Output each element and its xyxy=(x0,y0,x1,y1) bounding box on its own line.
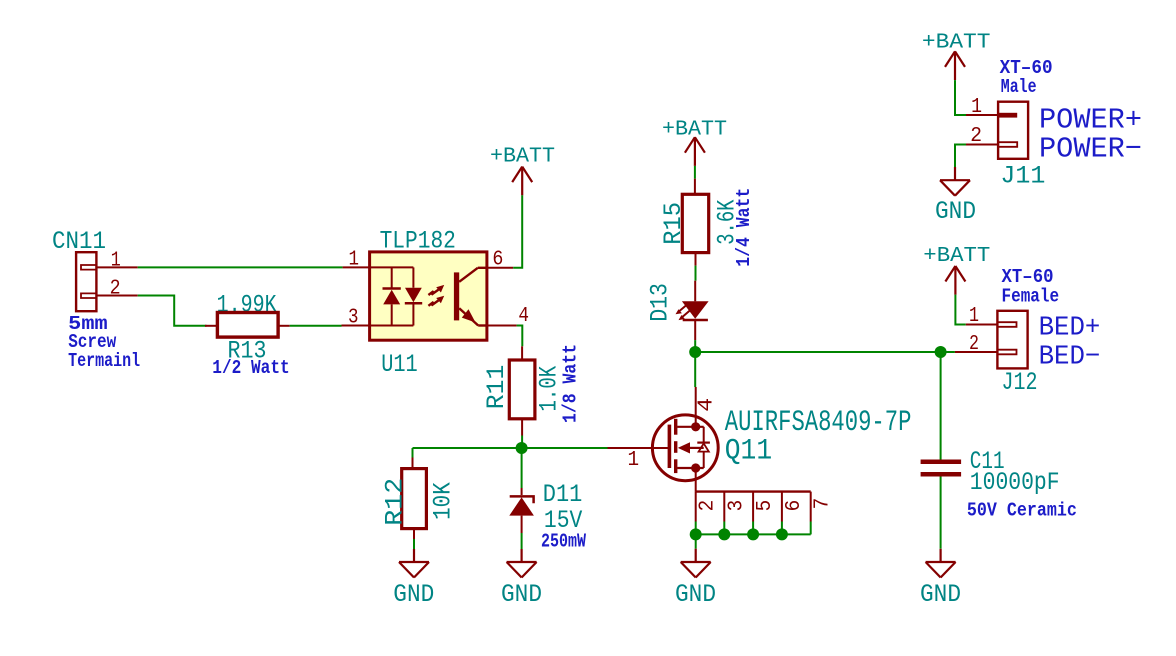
U11 pin 1 xyxy=(343,266,370,268)
connector J12 pin 2 contact xyxy=(997,350,1016,355)
field text 1/4 Watt xyxy=(733,188,755,267)
pin number 4 (U11) xyxy=(518,305,529,328)
zener D11 pin cathode xyxy=(521,488,523,495)
wire source stub 3 xyxy=(723,522,725,535)
U11 LED input rail top xyxy=(370,266,414,268)
svg-text:Termainl: Termainl xyxy=(68,350,140,372)
svg-text:10000pF: 10000pF xyxy=(970,468,1060,497)
wire gate to Q11 xyxy=(608,447,669,449)
resistor R13 value 1.99K xyxy=(217,291,277,320)
net label POWER+ xyxy=(1039,103,1142,136)
capacitor C11 reference xyxy=(970,447,1005,476)
wire CN11-1 to U11-1 xyxy=(138,266,343,268)
field text XT-60 (J12) xyxy=(1002,266,1054,288)
LED D13 emission arrow lower xyxy=(679,310,691,320)
U11 pin 3 xyxy=(342,325,370,327)
wire D13 node to C11 node xyxy=(695,351,940,353)
pin number 6 (U11) xyxy=(492,248,503,271)
svg-text:BED+: BED+ xyxy=(1039,314,1101,344)
power label +BATT (J12) xyxy=(923,244,990,268)
wire node to C11 xyxy=(940,352,942,460)
connector CN11 pin 2 contact xyxy=(81,293,96,298)
pin number 2 (J12) xyxy=(969,333,979,356)
svg-text:250mW: 250mW xyxy=(541,531,586,553)
wire source stub 2 xyxy=(695,522,697,535)
connector J11 pin 2 contact xyxy=(998,142,1017,147)
wire R12 to GND xyxy=(413,539,415,549)
wire U11-4 to R11 xyxy=(517,326,523,347)
svg-text:+BATT: +BATT xyxy=(922,31,991,55)
svg-text:U11: U11 xyxy=(381,350,418,379)
zener D11 value 15V xyxy=(544,506,582,535)
pin number 2 (J11) xyxy=(970,125,982,148)
ground GND (Q11) xyxy=(681,549,711,578)
pin number 1 (Q11 gate) xyxy=(628,449,640,472)
field text Termainl xyxy=(68,350,140,372)
wire source stub 7 xyxy=(810,522,812,535)
pin number 1 (CN11) xyxy=(111,249,121,272)
wire U11-6 to +BATT xyxy=(513,195,522,267)
resistor R12 pin 1 xyxy=(412,458,414,469)
connector J11 pin 1 xyxy=(966,114,998,116)
resistor R12 pin 2 xyxy=(413,529,415,539)
capacitor C11 value 10000pF xyxy=(970,468,1060,497)
resistor R11 value 1.0K xyxy=(535,366,564,412)
U11 phototransistor emitter xyxy=(459,308,487,325)
resistor R11 pin 1 xyxy=(521,346,523,360)
connector J12 pin 1 xyxy=(966,324,998,326)
ground label GND (D11) xyxy=(501,580,542,609)
svg-text:D13: D13 xyxy=(646,283,675,322)
pin number 5 (Q11) xyxy=(754,500,777,512)
svg-text:3: 3 xyxy=(348,307,359,330)
field text Screw xyxy=(68,331,117,353)
wire D11 to GND xyxy=(521,533,523,549)
junction gate node xyxy=(516,442,528,454)
ground label GND (Q11) xyxy=(675,580,716,609)
power label +BATT (U11) xyxy=(490,145,555,169)
svg-text:10K: 10K xyxy=(429,482,458,520)
svg-text:BED−: BED− xyxy=(1039,342,1101,372)
wire drain vertical xyxy=(694,352,696,387)
svg-text:Male: Male xyxy=(1001,76,1037,98)
connector CN11 body xyxy=(76,252,96,311)
transistor Q11 value AUIRFSA8409-7P xyxy=(725,406,912,440)
zener D11 reference xyxy=(543,480,583,509)
wire source to GND xyxy=(695,534,697,548)
svg-text:1: 1 xyxy=(971,96,982,119)
svg-text:4: 4 xyxy=(695,398,718,412)
resistor R12 body xyxy=(402,469,427,529)
connector J11 pin 1 contact xyxy=(998,113,1017,118)
wire D13 to node xyxy=(694,340,696,352)
U11 phototransistor base bar xyxy=(454,272,459,320)
pin number 1 (U11) xyxy=(349,248,360,271)
svg-text:R12: R12 xyxy=(381,478,410,526)
Q11 pin 2 stub xyxy=(695,492,697,522)
wire C11 to GND xyxy=(940,477,942,549)
Q11 source bus bar xyxy=(696,490,811,492)
svg-text:1: 1 xyxy=(111,249,121,272)
wire CN11-2 to R13 xyxy=(138,296,207,326)
capacitor C11 plates xyxy=(921,460,962,477)
svg-text:1: 1 xyxy=(969,305,979,328)
zener D11 triangle xyxy=(509,497,534,515)
connector CN11 pin 1 xyxy=(96,266,137,268)
wire source stub 6 xyxy=(781,522,783,535)
pin number 1 (J11) xyxy=(971,96,982,119)
U11 pin 6 xyxy=(487,267,513,269)
Q11 drain pin xyxy=(695,387,697,427)
power label +BATT (R15) xyxy=(662,118,727,142)
net label BED- xyxy=(1039,342,1101,372)
wire R15 to D13 xyxy=(695,266,697,281)
U11 right LED cathode bar xyxy=(405,302,422,305)
pin number 2 (Q11) xyxy=(697,500,720,512)
ground GND (D11) xyxy=(507,549,537,578)
pin number 6 (Q11) xyxy=(783,500,806,512)
U11 emission arrow lower xyxy=(428,296,444,306)
svg-text:1: 1 xyxy=(628,449,640,472)
field text XT-60 (J11) xyxy=(1000,57,1053,79)
wire +BATT to J11-1 xyxy=(955,80,966,115)
svg-text:1/8 Watt: 1/8 Watt xyxy=(559,344,581,423)
junction source 3 xyxy=(718,528,730,540)
Q11 source pin xyxy=(695,468,697,492)
net label BED+ xyxy=(1039,314,1101,344)
ground label GND (R12) xyxy=(393,580,434,609)
LED D13 pin anode xyxy=(694,281,696,302)
resistor R15 value 3.6K xyxy=(712,200,741,245)
svg-text:6: 6 xyxy=(492,248,503,271)
resistor R13 pin 1 xyxy=(205,325,217,327)
svg-text:50V Ceramic: 50V Ceramic xyxy=(967,499,1077,521)
Q11 source mid line xyxy=(690,447,704,449)
wire source stub 5 xyxy=(752,522,754,535)
pin number 3 (Q11) xyxy=(725,500,748,512)
svg-text:2: 2 xyxy=(969,333,979,356)
U11 left LED cathode bar xyxy=(383,287,401,290)
power symbol +BATT (U11) xyxy=(512,167,532,196)
connector J12 body xyxy=(997,311,1027,369)
power symbol +BATT (J11) xyxy=(945,51,965,80)
wire gate node to R12 xyxy=(412,448,414,458)
power symbol +BATT (R15) xyxy=(685,137,705,166)
svg-text:Female: Female xyxy=(1002,286,1060,308)
svg-text:POWER−: POWER− xyxy=(1039,133,1142,166)
field text Female xyxy=(1002,286,1060,308)
svg-text:Q11: Q11 xyxy=(725,435,772,469)
connector J11 body xyxy=(998,102,1028,159)
svg-text:+BATT: +BATT xyxy=(490,145,555,169)
junction source 5 xyxy=(747,528,759,540)
LED D13 triangle xyxy=(682,301,709,319)
U11 pin 4 xyxy=(487,325,517,327)
Q11 pin 3 stub xyxy=(723,492,725,522)
LED D13 cathode bar xyxy=(683,319,708,322)
wire R11 to gate node xyxy=(521,436,523,449)
zener D11 cathode bar xyxy=(510,496,534,503)
pin number 4 (Q11 drain) xyxy=(695,398,718,412)
pin number 3 (U11) xyxy=(348,307,359,330)
Q11 drain junction dot xyxy=(691,422,700,431)
U11 right LED triangle xyxy=(405,288,422,303)
ground label GND (C11) xyxy=(920,580,961,609)
wire J11-2 to GND xyxy=(955,145,966,168)
ground GND (R12) xyxy=(399,549,429,578)
U11 LED input rail bottom xyxy=(370,325,414,327)
resistor R11 reference xyxy=(482,365,511,410)
resistor R11 body xyxy=(509,360,535,419)
ground label GND (J11) xyxy=(935,197,976,226)
wire +BATT to J12-1 xyxy=(955,295,965,325)
transistor Q11 body circle xyxy=(652,415,718,481)
junction source 2 xyxy=(690,528,702,540)
U11 left LED vertical xyxy=(391,267,393,325)
U11 left LED triangle xyxy=(383,290,400,305)
resistor R12 value 10K xyxy=(429,482,458,520)
resistor R15 pin 1 xyxy=(694,179,696,195)
net label POWER- xyxy=(1039,133,1142,166)
Q11 channel segments xyxy=(674,419,677,473)
svg-text:XT–60: XT–60 xyxy=(1002,266,1054,288)
Q11 pin 6 stub xyxy=(781,492,783,522)
pin number 7 (Q11) xyxy=(812,498,835,510)
svg-text:+BATT: +BATT xyxy=(923,244,990,268)
Q11 source arrow xyxy=(678,442,690,453)
wire +BATT to R15 xyxy=(694,166,696,179)
wire gate node to D11 xyxy=(521,448,523,488)
Q11 body diode xyxy=(697,427,710,468)
connector J12 reference xyxy=(1002,368,1038,397)
field text 1/8 Watt xyxy=(559,344,581,423)
connector J11 pin 2 xyxy=(966,144,998,146)
svg-text:GND: GND xyxy=(935,197,976,226)
transistor Q11 reference xyxy=(725,435,772,469)
U11 right LED vertical xyxy=(412,267,414,325)
resistor R13 reference xyxy=(228,337,267,366)
connector J12 pin 2 xyxy=(955,351,998,353)
svg-text:6: 6 xyxy=(783,500,806,512)
svg-text:POWER+: POWER+ xyxy=(1039,103,1142,136)
connector J11 reference xyxy=(1000,162,1045,191)
Q11 bottom connection xyxy=(677,467,704,469)
svg-text:GND: GND xyxy=(675,580,716,609)
svg-text:3: 3 xyxy=(725,500,748,512)
op-to-coupler U11 value TLP182 xyxy=(380,226,456,255)
Q11 source junction dot xyxy=(691,463,700,472)
wire C11 node to J12-2 xyxy=(941,351,955,353)
junction source 6 xyxy=(776,528,788,540)
svg-text:GND: GND xyxy=(393,580,434,609)
svg-text:5: 5 xyxy=(754,500,777,512)
svg-text:1/2 Watt: 1/2 Watt xyxy=(212,357,289,379)
svg-text:2: 2 xyxy=(970,125,982,148)
svg-text:1/4 Watt: 1/4 Watt xyxy=(733,188,755,267)
U11 emitter arrowhead xyxy=(462,309,476,322)
power label +BATT (J11) xyxy=(922,31,991,55)
pin number 2 (CN11) xyxy=(110,278,121,301)
resistor R15 pin 2 xyxy=(695,253,697,266)
resistor R13 pin 2 xyxy=(278,325,290,327)
power symbol +BATT (J12) xyxy=(945,266,965,295)
junction C11 node xyxy=(935,346,947,358)
wire R13 to U11-3 xyxy=(290,325,342,327)
connector CN11 pin 1 contact xyxy=(81,265,96,270)
zener D11 pin anode xyxy=(521,516,523,533)
Q11 drain connection xyxy=(677,426,704,428)
pin number 1 (J12) xyxy=(969,305,979,328)
svg-text:2: 2 xyxy=(697,500,720,512)
svg-text:J11: J11 xyxy=(1000,162,1045,191)
ground GND (J11) xyxy=(940,167,970,196)
op-to-coupler U11 body xyxy=(370,252,487,340)
svg-text:7: 7 xyxy=(812,498,835,510)
ground GND (C11) xyxy=(926,549,956,578)
connector CN11 reference label xyxy=(52,227,106,256)
svg-text:GND: GND xyxy=(501,580,542,609)
svg-text:2: 2 xyxy=(110,278,121,301)
Q11 pin 5 stub xyxy=(752,492,754,522)
connector J12 pin 1 contact xyxy=(997,322,1016,327)
svg-text:R11: R11 xyxy=(482,365,511,410)
field text 50V Ceramic xyxy=(967,499,1077,521)
Q11 gate bar xyxy=(668,425,672,468)
svg-text:J12: J12 xyxy=(1002,368,1038,397)
svg-text:R15: R15 xyxy=(659,202,688,245)
svg-text:1: 1 xyxy=(349,248,360,271)
field text 5mm xyxy=(68,313,107,335)
resistor R15 body xyxy=(682,194,708,252)
LED D13 pin cathode xyxy=(694,320,696,340)
junction D13 node xyxy=(689,346,701,358)
svg-text:GND: GND xyxy=(920,580,961,609)
resistor R15 reference xyxy=(659,202,688,245)
svg-text:D11: D11 xyxy=(543,480,583,509)
U11 phototransistor collector xyxy=(459,268,487,282)
resistor R13 body xyxy=(217,313,278,338)
LED D13 reference xyxy=(646,283,675,322)
field text Male xyxy=(1001,76,1037,98)
field text 250mW xyxy=(541,531,586,553)
resistor R11 pin 2 xyxy=(521,419,523,436)
op-to-coupler U11 reference xyxy=(381,350,418,379)
wire gate bus horizontal xyxy=(413,447,608,449)
resistor R12 reference xyxy=(381,478,410,526)
wire source bus xyxy=(696,533,811,535)
LED D13 emission arrow upper xyxy=(676,305,688,315)
Q11 pin 7 stub xyxy=(810,492,812,522)
connector CN11 pin 2 xyxy=(96,295,137,297)
U11 emission arrow upper xyxy=(428,285,444,295)
field text 1/2 Watt xyxy=(212,357,289,379)
